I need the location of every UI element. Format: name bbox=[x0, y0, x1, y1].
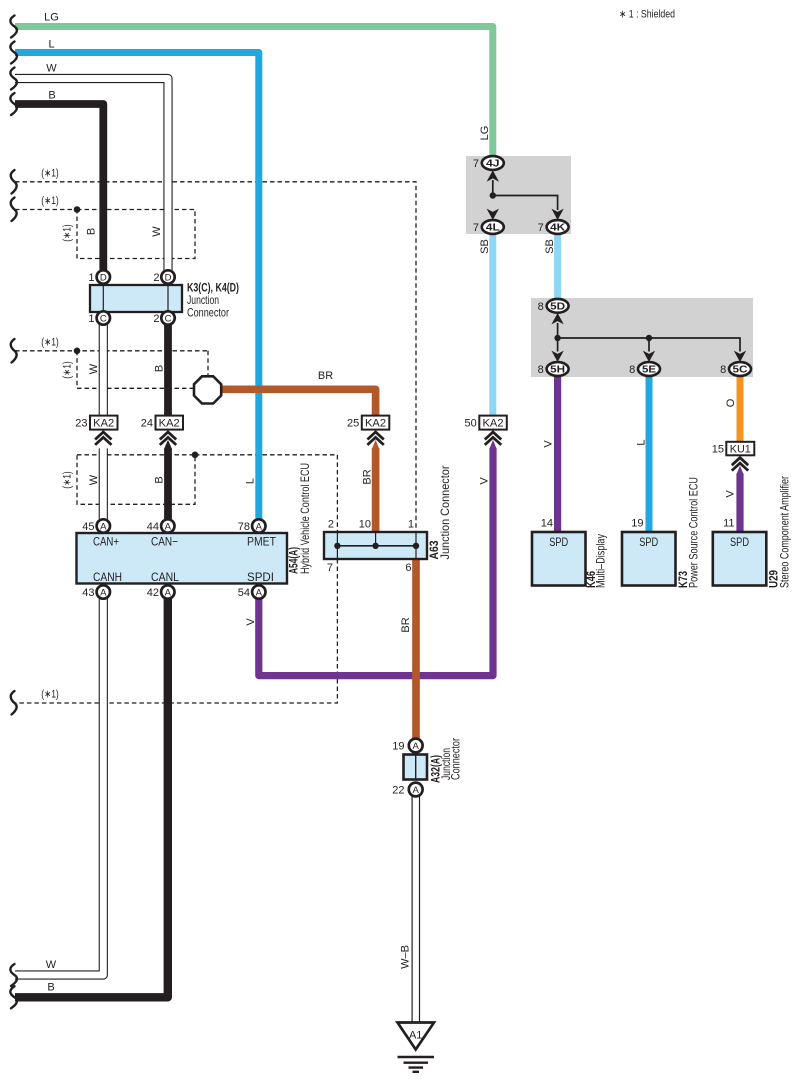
svg-text:14: 14 bbox=[541, 518, 553, 530]
svg-text:8: 8 bbox=[538, 301, 544, 313]
svg-text:C: C bbox=[165, 313, 172, 324]
SPD texts + pins bbox=[541, 518, 749, 550]
rotated labels in dashed box 4 bbox=[62, 471, 166, 489]
wire BR brown octagon to A63 pin10 bbox=[219, 389, 379, 532]
svg-text:V: V bbox=[245, 618, 257, 626]
svg-text:7: 7 bbox=[327, 562, 333, 574]
wire B bottom (A54 42 to left edge) bbox=[15, 592, 168, 997]
svg-text:Stereo Component Amplifier: Stereo Component Amplifier bbox=[778, 476, 792, 588]
svg-text:KA2: KA2 bbox=[93, 418, 114, 430]
svg-text:∗ 1 : Shielded: ∗ 1 : Shielded bbox=[619, 9, 675, 21]
svg-text:78: 78 bbox=[238, 521, 250, 533]
shield gray box 1 (4J/4L/4K) bbox=[466, 156, 571, 234]
svg-text:W: W bbox=[151, 226, 163, 237]
svg-text:11: 11 bbox=[723, 518, 734, 530]
svg-text:B: B bbox=[154, 365, 166, 372]
down arrow into 5C bbox=[734, 351, 746, 362]
squiggle L bbox=[10, 42, 17, 64]
note: *1 Shielded bbox=[619, 9, 675, 21]
pin circles K3 bbox=[88, 270, 174, 325]
gray box 2 internal lines bbox=[551, 313, 746, 362]
shield dashed line 5 (A63 pin7 to bottom-left) bbox=[15, 559, 337, 703]
svg-text:L: L bbox=[48, 39, 54, 51]
svg-text:SPDI: SPDI bbox=[247, 570, 274, 584]
svg-text:KA2: KA2 bbox=[483, 418, 504, 430]
connector label 23 KA2 bbox=[75, 416, 117, 445]
ECU A54(A) box bbox=[77, 533, 288, 584]
svg-text:Connector: Connector bbox=[449, 738, 463, 780]
svg-text:44: 44 bbox=[147, 521, 159, 533]
A63 pin numbers + title bbox=[327, 466, 452, 575]
squiggle dash1 bbox=[11, 170, 17, 194]
svg-text:A: A bbox=[165, 587, 172, 598]
wire V purple KU1 to U29 bbox=[736, 466, 743, 532]
wire W bottom (A54 43 to left edge) bbox=[15, 592, 103, 975]
svg-text:7: 7 bbox=[473, 222, 479, 234]
rotated labels in dashed box 3 bbox=[62, 361, 166, 379]
svg-text:D: D bbox=[165, 272, 172, 283]
svg-text:7: 7 bbox=[538, 222, 544, 234]
K73 labels bbox=[676, 477, 701, 588]
svg-text:SB: SB bbox=[479, 239, 491, 254]
svg-text:Hybrid Vehicle Control ECU: Hybrid Vehicle Control ECU bbox=[298, 463, 312, 574]
svg-text:5D: 5D bbox=[550, 301, 565, 312]
wire L blue top bbox=[15, 53, 259, 527]
svg-text:V: V bbox=[725, 490, 737, 498]
svg-text:45: 45 bbox=[82, 521, 94, 533]
shield dashed line 3 + box + octagon frame bbox=[15, 348, 208, 389]
svg-text:A: A bbox=[256, 521, 263, 532]
connector label 24 KA2 bbox=[141, 416, 183, 445]
svg-text:6: 6 bbox=[405, 562, 411, 574]
svg-text:Connector: Connector bbox=[187, 306, 229, 320]
svg-text:5E: 5E bbox=[642, 365, 656, 376]
svg-text:2: 2 bbox=[328, 519, 334, 531]
oval 4K bbox=[538, 220, 569, 234]
svg-text:CAN−: CAN− bbox=[151, 535, 178, 549]
svg-text:CANL: CANL bbox=[151, 570, 179, 584]
svg-text:CANH: CANH bbox=[93, 570, 122, 584]
svg-text:4L: 4L bbox=[486, 223, 500, 234]
svg-text:25: 25 bbox=[347, 418, 359, 430]
SPD box K73 bbox=[622, 532, 676, 586]
wire O orange 5C to KU1 bbox=[737, 369, 744, 442]
svg-text:O: O bbox=[725, 398, 737, 407]
oval 5C bbox=[720, 362, 751, 376]
svg-text:W–B: W–B bbox=[400, 945, 412, 969]
wire B top bbox=[15, 104, 103, 277]
svg-text:1: 1 bbox=[88, 272, 94, 284]
svg-text:Junction Connector: Junction Connector bbox=[438, 466, 452, 560]
svg-text:L: L bbox=[245, 478, 257, 484]
svg-text:SPD: SPD bbox=[549, 535, 568, 549]
A32 labels bbox=[429, 738, 463, 783]
wire BR brown A63 pin6 to A32 pin19 bbox=[412, 559, 420, 746]
svg-text:BR: BR bbox=[318, 370, 333, 382]
svg-text:1: 1 bbox=[408, 519, 414, 531]
wire LG green top bbox=[15, 27, 493, 164]
gray box 1 internal lines bbox=[487, 170, 564, 220]
U29 labels bbox=[767, 476, 792, 588]
svg-text:SPD: SPD bbox=[730, 535, 749, 549]
junction connector K3(C),K4(D) bbox=[90, 285, 182, 312]
svg-text:KA2: KA2 bbox=[159, 418, 180, 430]
oval 4J bbox=[473, 156, 504, 170]
svg-text:8: 8 bbox=[538, 364, 544, 376]
shield dashed box 4 + link to A63 pin2 bbox=[77, 452, 337, 533]
svg-text:8: 8 bbox=[629, 364, 635, 376]
svg-text:4J: 4J bbox=[486, 159, 500, 170]
svg-text:A: A bbox=[256, 587, 263, 598]
svg-text:(∗1): (∗1) bbox=[41, 168, 59, 180]
svg-text:W: W bbox=[88, 363, 100, 374]
svg-text:A: A bbox=[100, 521, 107, 532]
svg-text:W: W bbox=[46, 63, 57, 75]
svg-text:W: W bbox=[46, 959, 57, 971]
connector label 25 KA2 bbox=[347, 416, 389, 445]
squiggle W bbox=[10, 68, 17, 90]
svg-text:(∗1): (∗1) bbox=[41, 689, 59, 701]
squiggle dash2 bbox=[11, 198, 17, 222]
svg-text:54: 54 bbox=[238, 587, 250, 599]
svg-text:10: 10 bbox=[359, 519, 371, 531]
svg-text:B: B bbox=[154, 476, 166, 483]
svg-text:Power Source Control ECU: Power Source Control ECU bbox=[687, 477, 701, 588]
svg-text:SPD: SPD bbox=[639, 535, 658, 549]
svg-text:BR: BR bbox=[362, 469, 374, 484]
connector label 50 KA2 bbox=[465, 416, 507, 445]
down arrow into 5E bbox=[643, 351, 655, 362]
svg-text:43: 43 bbox=[82, 587, 94, 599]
svg-text:42: 42 bbox=[147, 587, 159, 599]
svg-text:B: B bbox=[86, 228, 98, 235]
svg-text:W: W bbox=[88, 474, 100, 485]
wire W-B A32 pin22 to ground bbox=[411, 790, 420, 1024]
squiggle dash5 bbox=[11, 691, 17, 715]
squiggle LG bbox=[10, 16, 17, 38]
top wire labels bbox=[44, 12, 59, 102]
wire code rotated labels bbox=[46, 126, 737, 994]
svg-text:LG: LG bbox=[479, 126, 491, 141]
shield dashed line 2 + box bbox=[15, 206, 195, 258]
junction connector A32(A) box bbox=[404, 755, 428, 780]
squiggle W bottom bbox=[10, 964, 17, 986]
svg-text:LG: LG bbox=[44, 12, 59, 24]
down arrow into 4K bbox=[551, 209, 563, 220]
svg-text:7: 7 bbox=[473, 158, 479, 170]
pin circles A54 bottom bbox=[82, 585, 265, 599]
up arrow into 5D bbox=[551, 313, 563, 324]
wire L blue 5E to K73 bbox=[646, 369, 653, 532]
K46 labels bbox=[584, 534, 608, 588]
svg-text:B: B bbox=[47, 982, 54, 994]
svg-text:B: B bbox=[48, 90, 55, 102]
svg-text:A: A bbox=[413, 785, 420, 796]
(*1) labels horizontal bbox=[41, 168, 59, 701]
svg-text:(∗1): (∗1) bbox=[62, 361, 74, 379]
svg-text:1: 1 bbox=[88, 313, 94, 325]
junction connector A63 box bbox=[324, 532, 427, 559]
pin circles A54 top bbox=[82, 519, 265, 533]
wire B middle (K3 2C to A54 44) bbox=[164, 318, 172, 526]
wire SB from 4L to 50 KA2 bbox=[489, 227, 496, 416]
wire continuation squiggles left edge bbox=[10, 16, 17, 1009]
up arrow into 4J bbox=[487, 170, 499, 181]
svg-text:(∗1): (∗1) bbox=[41, 337, 59, 349]
svg-text:D: D bbox=[100, 272, 107, 283]
svg-text:22: 22 bbox=[392, 785, 404, 797]
svg-text:15: 15 bbox=[712, 444, 724, 456]
SPD box U29 bbox=[713, 532, 767, 586]
svg-text:A: A bbox=[413, 741, 420, 752]
oval 5H bbox=[538, 362, 569, 376]
svg-text:19: 19 bbox=[631, 518, 643, 530]
squiggle B bottom bbox=[10, 986, 17, 1008]
svg-text:V: V bbox=[543, 440, 555, 448]
svg-text:8: 8 bbox=[720, 364, 726, 376]
wire SB from 4K to 5D bbox=[554, 227, 561, 306]
svg-text:4K: 4K bbox=[550, 223, 566, 234]
svg-text:A1: A1 bbox=[409, 1030, 422, 1042]
svg-text:KA2: KA2 bbox=[365, 418, 386, 430]
squiggle dash3 bbox=[11, 339, 17, 363]
svg-text:19: 19 bbox=[392, 741, 404, 753]
svg-text:(∗1): (∗1) bbox=[62, 224, 74, 242]
svg-text:23: 23 bbox=[75, 418, 87, 430]
svg-text:KU1: KU1 bbox=[730, 444, 751, 456]
svg-text:CAN+: CAN+ bbox=[93, 535, 119, 549]
oval 5D bbox=[538, 299, 569, 313]
down arrow into 5H bbox=[551, 351, 563, 362]
svg-text:2: 2 bbox=[153, 313, 159, 325]
wire W top (outlined) bbox=[15, 79, 168, 278]
shield gray box 2 (5D/5H/5E/5C) bbox=[531, 298, 753, 377]
shield octagon bbox=[194, 376, 221, 403]
svg-text:PMET: PMET bbox=[247, 535, 277, 549]
oval 5E bbox=[629, 362, 660, 376]
svg-text:A: A bbox=[165, 521, 172, 532]
oval 4L bbox=[473, 220, 504, 234]
svg-text:2: 2 bbox=[153, 272, 159, 284]
svg-text:5H: 5H bbox=[550, 365, 565, 376]
down arrow into 4L bbox=[487, 209, 499, 220]
svg-text:BR: BR bbox=[400, 617, 412, 632]
svg-text:50: 50 bbox=[465, 418, 477, 430]
A54 texts bbox=[93, 463, 312, 584]
wire V purple A54 54 to 50 KA2 bbox=[259, 440, 497, 676]
rotated labels in dashed box 2 bbox=[62, 224, 164, 242]
svg-text:V: V bbox=[479, 477, 491, 485]
svg-text:24: 24 bbox=[141, 418, 153, 430]
svg-text:(∗1): (∗1) bbox=[41, 195, 59, 207]
svg-text:L: L bbox=[636, 439, 648, 445]
ground symbol A1 bbox=[398, 1023, 435, 1072]
svg-text:5C: 5C bbox=[733, 365, 748, 376]
wire W middle (K3 1C to A54 45) bbox=[95, 318, 111, 526]
SPD box K46 bbox=[532, 532, 586, 586]
squiggle B bbox=[10, 93, 17, 115]
svg-text:SB: SB bbox=[544, 239, 556, 254]
svg-text:(∗1): (∗1) bbox=[62, 471, 74, 489]
svg-text:A: A bbox=[100, 587, 107, 598]
wire V purple 5H to K46 bbox=[554, 369, 561, 532]
svg-text:C: C bbox=[100, 313, 107, 324]
connector label 15 KU1 bbox=[712, 442, 755, 471]
shield dashed line 1 bbox=[15, 182, 416, 532]
svg-text:Multi–Display: Multi–Display bbox=[594, 534, 608, 588]
pin circles A32 bbox=[392, 739, 422, 797]
K3 connector title bbox=[187, 281, 239, 320]
